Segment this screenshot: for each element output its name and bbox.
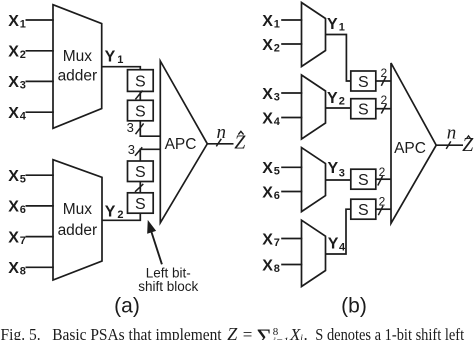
- input label X2 (a): [8, 44, 26, 62]
- wire Y1 to shift chain (a): [102, 67, 141, 70]
- wire S3 to APC (b): [376, 178, 391, 180]
- svg-text:3: 3: [274, 91, 280, 103]
- input label X2 (b): [262, 37, 280, 55]
- svg-text:2: 2: [339, 96, 345, 108]
- input label X7 (a): [8, 229, 26, 247]
- wire Y2 to S2 (b): [326, 107, 351, 109]
- output label Y4 (b): [328, 235, 346, 253]
- svg-text:Y: Y: [327, 16, 338, 33]
- bus slash S3 (b): [378, 176, 383, 186]
- shift block S3 (b): [351, 169, 376, 189]
- input label X1 (a): [8, 13, 26, 31]
- svg-text:1: 1: [20, 18, 26, 30]
- shift block S3 bottom (a): [128, 193, 154, 213]
- svg-text:3: 3: [127, 120, 134, 135]
- shift block S4 (b): [351, 199, 376, 219]
- wire X6 (a): [26, 205, 54, 207]
- svg-text:S: S: [135, 196, 146, 213]
- annotation arrow (a): [148, 221, 162, 264]
- svg-text:1: 1: [339, 21, 345, 33]
- svg-text:Y: Y: [328, 235, 339, 252]
- wire X7 (b): [281, 238, 302, 240]
- wire X2 (b): [281, 43, 302, 45]
- svg-text:Z: Z: [234, 132, 246, 154]
- shift block S1 (b): [351, 71, 376, 91]
- wire Y4 to S4 (b): [326, 209, 351, 254]
- wire X8 (a): [26, 266, 54, 268]
- figure caption: [1, 324, 465, 340]
- hat accent (b): [466, 136, 471, 139]
- svg-text:Mux: Mux: [63, 48, 93, 65]
- hat accent (a): [238, 131, 243, 134]
- bus slash S1-S2 (a): [135, 91, 142, 100]
- svg-text:APC: APC: [394, 140, 426, 157]
- input label X3 (b): [262, 86, 280, 104]
- svg-text:X: X: [8, 168, 19, 185]
- svg-text:X: X: [262, 13, 273, 30]
- shift block S2 (a): [128, 100, 154, 121]
- svg-text:.: .: [304, 325, 308, 340]
- wire S2 to APC (b): [376, 108, 391, 110]
- svg-text:2: 2: [381, 66, 388, 80]
- svg-text:8: 8: [274, 263, 280, 275]
- svg-text:Y: Y: [327, 90, 338, 107]
- svg-text:S: S: [135, 73, 146, 90]
- svg-text:4: 4: [274, 116, 281, 128]
- input label X6 (a): [8, 199, 26, 217]
- bus slash above S4 (a): [135, 147, 142, 155]
- svg-text:2: 2: [117, 209, 123, 221]
- svg-text:S: S: [135, 164, 146, 181]
- wire X5 (a): [26, 174, 54, 176]
- svg-text:Mux: Mux: [63, 201, 93, 218]
- svg-text:6: 6: [20, 204, 26, 216]
- svg-text:X: X: [8, 229, 19, 246]
- output label Y1 (a): [105, 49, 124, 67]
- svg-text:Y: Y: [105, 203, 116, 220]
- wire Y1 to S1 (b): [326, 35, 351, 82]
- svg-text:X: X: [8, 199, 19, 216]
- svg-text:3: 3: [20, 80, 26, 92]
- svg-text:8: 8: [20, 266, 26, 278]
- svg-text:5: 5: [274, 166, 280, 178]
- wire S1 to APC (b): [376, 80, 391, 82]
- svg-text:shift block: shift block: [138, 279, 198, 294]
- output label Y2 (b): [327, 90, 345, 108]
- input label X5 (b): [262, 160, 280, 178]
- shift block S4 upper (a): [128, 161, 154, 182]
- svg-text:S denotes a 1-bit shift left: S denotes a 1-bit shift left: [315, 325, 464, 340]
- svg-text:Y: Y: [105, 49, 116, 66]
- wire S1 to S2 (a): [139, 91, 141, 100]
- svg-text:S: S: [135, 103, 146, 120]
- svg-text:APC: APC: [165, 136, 197, 153]
- wire X3 (b): [281, 92, 302, 94]
- svg-text:1: 1: [274, 18, 280, 30]
- wire S2 to APC (a): [140, 121, 160, 136]
- input label X6 (b): [262, 184, 280, 202]
- output label Y1 (b): [327, 16, 345, 34]
- svg-text:3: 3: [128, 142, 135, 157]
- svg-text:X: X: [8, 105, 19, 122]
- svg-text:S: S: [358, 101, 369, 118]
- input label X8 (a): [8, 260, 26, 278]
- shift block S2 (b): [351, 99, 376, 119]
- wire Y3 to S3 (b): [326, 179, 351, 181]
- bus slash S2 (b): [381, 104, 386, 114]
- mux adder block 1 (a): [53, 5, 102, 129]
- svg-text:X: X: [8, 260, 19, 277]
- mux adder block 2 (a): [53, 160, 102, 280]
- svg-text:X: X: [262, 257, 273, 274]
- mux block 3 (b): [302, 148, 326, 212]
- bus slash S4 (b): [378, 206, 383, 216]
- svg-text:X: X: [262, 110, 273, 127]
- output wire (a): [207, 143, 233, 145]
- svg-text:X: X: [8, 74, 19, 91]
- svg-text:(a): (a): [114, 295, 140, 318]
- svg-text:n: n: [217, 122, 227, 143]
- svg-text:Fig. 5.: Fig. 5.: [1, 325, 41, 340]
- svg-text:2: 2: [274, 42, 280, 54]
- wire X5 (b): [281, 166, 302, 168]
- svg-text:Y: Y: [328, 160, 339, 177]
- svg-text:X: X: [262, 37, 273, 54]
- input label X7 (b): [262, 231, 280, 249]
- input label X4 (a): [8, 105, 27, 123]
- svg-text:i=1: i=1: [273, 336, 289, 340]
- svg-text:7: 7: [274, 237, 280, 249]
- svg-text:3: 3: [339, 168, 345, 180]
- svg-text:X: X: [262, 231, 273, 248]
- bus slash S1 (b): [381, 77, 386, 86]
- wire X3 (a): [26, 80, 54, 82]
- svg-text:2: 2: [20, 49, 26, 61]
- APC block (a): [160, 61, 207, 223]
- svg-text:X: X: [262, 160, 273, 177]
- svg-text:Z: Z: [227, 324, 238, 340]
- wire X6 (b): [281, 191, 302, 193]
- mux block 4 (b): [302, 220, 326, 286]
- output label Z hat (b): [462, 134, 474, 156]
- wire Y2 to shift chain (a): [102, 213, 140, 220]
- input label X1 (b): [262, 13, 280, 31]
- mux block 2 (b): [302, 75, 326, 139]
- wire X1 (b): [281, 19, 302, 21]
- wire X1 (a): [26, 19, 54, 21]
- input label X5 (a): [8, 168, 26, 186]
- input label X4 (b): [262, 110, 281, 128]
- wire S4 to APC (b): [376, 208, 391, 210]
- svg-text:1: 1: [117, 54, 123, 66]
- bus slash S4-S3 (a): [135, 184, 143, 192]
- output label Z hat (a): [234, 132, 246, 154]
- svg-text:n: n: [447, 123, 457, 144]
- svg-text:Σ: Σ: [257, 325, 273, 340]
- output label Y3 (b): [328, 160, 345, 180]
- wire X8 (b): [281, 264, 302, 266]
- svg-text:S: S: [358, 202, 369, 219]
- output wire (b): [436, 144, 463, 146]
- svg-text:Basic PSAs that implement: Basic PSAs that implement: [52, 325, 222, 340]
- svg-text:X: X: [262, 86, 273, 103]
- input label X8 (b): [262, 257, 280, 275]
- svg-text:5: 5: [20, 174, 26, 186]
- svg-text:6: 6: [274, 190, 280, 202]
- svg-text:(b): (b): [341, 295, 367, 318]
- wire X4 (b): [281, 117, 302, 119]
- svg-text:7: 7: [20, 235, 26, 247]
- svg-text:S: S: [358, 74, 369, 91]
- svg-text:X: X: [8, 44, 19, 61]
- svg-text:4: 4: [339, 241, 346, 253]
- APC block (b): [391, 63, 436, 223]
- svg-text:X: X: [8, 13, 19, 30]
- wire X7 (a): [26, 236, 54, 238]
- bus slash output (a): [216, 139, 221, 147]
- bus slash output (b): [446, 141, 451, 149]
- svg-text:X: X: [262, 184, 273, 201]
- mux block 1 (b): [302, 3, 326, 67]
- wire X4 (a): [26, 111, 54, 113]
- wire X2 (a): [26, 50, 54, 52]
- annotation text left bit-shift block (a): [138, 266, 198, 295]
- svg-text:adder: adder: [58, 222, 98, 239]
- input label X3 (a): [8, 74, 26, 92]
- shift block S1 (a): [128, 70, 154, 92]
- wire S4 to S3 (a): [139, 182, 141, 193]
- svg-text:=: =: [243, 325, 253, 340]
- wire S4 to APC (a): [140, 149, 160, 161]
- svg-text:S: S: [358, 172, 369, 189]
- bus slash below S2 (a): [136, 123, 144, 134]
- output label Y2 (a): [105, 203, 124, 221]
- svg-text:adder: adder: [58, 68, 98, 85]
